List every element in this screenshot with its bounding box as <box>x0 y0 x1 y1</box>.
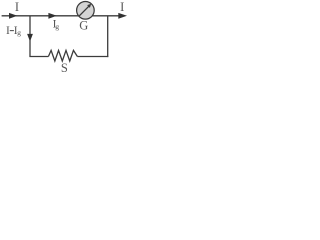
wire bottom left segment <box>29 56 48 58</box>
label I-Ig <box>6 25 21 37</box>
svg-text:I: I <box>6 25 10 37</box>
arrowhead current Ig <box>48 13 56 19</box>
arrowhead current I-Ig down <box>27 34 33 42</box>
label S <box>61 61 68 75</box>
svg-text:I: I <box>120 0 124 14</box>
svg-text:g: g <box>55 22 59 31</box>
galvanometer G body <box>77 2 95 20</box>
svg-text:S: S <box>61 61 68 74</box>
svg-text:g: g <box>17 28 21 37</box>
wire right vertical <box>107 16 109 57</box>
galvanometer G needle <box>79 4 91 16</box>
wire bottom right segment <box>77 56 108 58</box>
svg-text:I: I <box>15 0 19 14</box>
arrowhead current I right <box>118 13 127 19</box>
label G <box>79 19 88 33</box>
label Ig <box>53 19 60 32</box>
resistor S zigzag <box>48 50 77 61</box>
arrowhead current I left <box>9 13 17 19</box>
svg-text:G: G <box>79 19 88 33</box>
label I right <box>120 0 124 14</box>
wire top horizontal <box>2 15 124 17</box>
wire left vertical <box>29 16 31 57</box>
label I left <box>15 0 19 14</box>
